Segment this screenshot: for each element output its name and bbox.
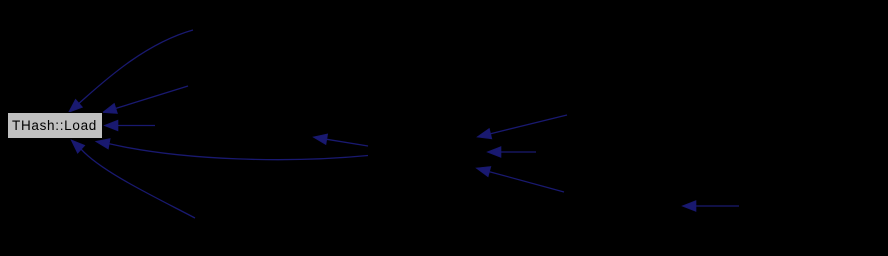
edge from right caller to middle node (horizontal) <box>487 147 536 158</box>
edge from lower-right caller to middle node <box>476 167 564 193</box>
edge from far-right caller (horizontal) <box>682 201 739 212</box>
svg-text:THash::Load: THash::Load <box>12 118 97 133</box>
edge from third caller to THash::Load (horizontal) <box>104 120 155 131</box>
edge from bottom caller to THash::Load (curved) <box>71 140 195 218</box>
edge from second caller to THash::Load <box>103 86 189 114</box>
edge from middle caller to THash::Load (long curve) <box>96 139 369 160</box>
node THash::Load (current function, grey box) <box>8 113 103 139</box>
edge from top caller to THash::Load (curved) <box>69 30 194 112</box>
edge from middle caller to hidden node <box>313 134 368 146</box>
edge from upper-right caller to middle node <box>477 115 567 139</box>
